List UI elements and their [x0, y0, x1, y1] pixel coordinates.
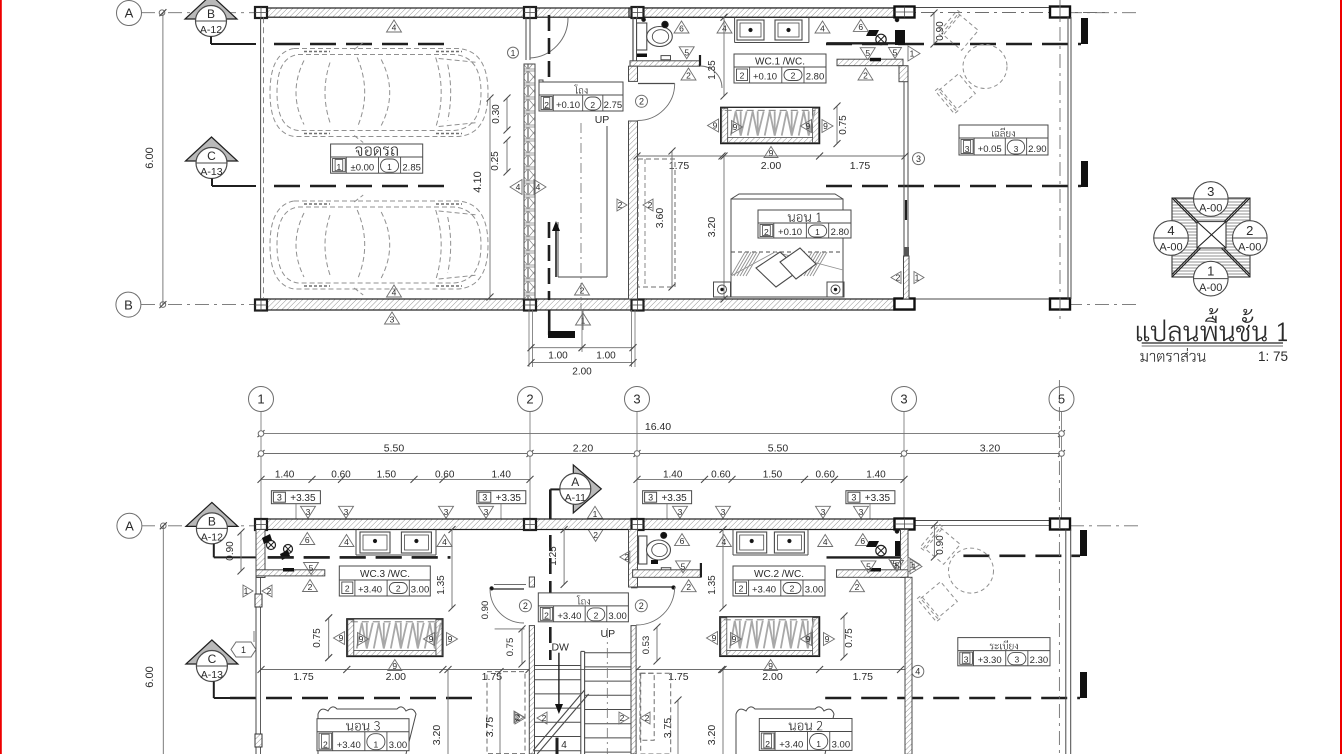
svg-text:6: 6 [858, 22, 863, 32]
svg-text:9: 9 [429, 634, 434, 644]
stair left wall (bottom) [529, 626, 534, 754]
svg-text:3: 3 [964, 655, 969, 665]
columns bottom (top plan) [255, 300, 267, 311]
svg-text:4: 4 [561, 740, 567, 751]
svg-text:2.75: 2.75 [604, 100, 623, 111]
svg-text:0.75: 0.75 [312, 628, 323, 648]
door arc WC1 [700, 66, 722, 88]
svg-text:2.80: 2.80 [806, 72, 825, 83]
closet dashed bedroom1 [638, 159, 675, 287]
svg-text:C: C [208, 652, 217, 666]
bed bedroom 1 [731, 194, 843, 297]
svg-text:6: 6 [679, 24, 684, 34]
section marker C/A-13 (top) [186, 137, 238, 161]
svg-text:2: 2 [648, 200, 653, 210]
svg-text:1.35: 1.35 [707, 575, 718, 595]
svg-text:3: 3 [633, 392, 640, 407]
svg-text:5: 5 [866, 561, 871, 571]
svg-text:A-13: A-13 [201, 669, 223, 681]
svg-text:3.60: 3.60 [654, 208, 666, 229]
stair outline (top plan) [606, 126, 608, 277]
svg-text:4.10: 4.10 [472, 171, 484, 192]
svg-text:3: 3 [1207, 184, 1214, 199]
tri 4/4 WC2 sinks [716, 535, 731, 547]
svg-text:A: A [125, 518, 134, 533]
grid bubble A (bottom plan) [117, 513, 142, 538]
svg-text:+3.40: +3.40 [358, 585, 382, 596]
grid bubble 5 [1049, 387, 1074, 412]
blanket hatch [731, 252, 843, 276]
svg-text:5.50: 5.50 [768, 443, 789, 455]
dim 1.35 WC2 [722, 530, 724, 609]
svg-text:2.00: 2.00 [572, 367, 592, 378]
wall right WC2 vertical [901, 530, 909, 578]
WC1 left wall [632, 17, 634, 61]
svg-text:9: 9 [769, 148, 774, 158]
door arc hall left (bottom) [490, 588, 524, 590]
svg-text:4: 4 [392, 23, 397, 33]
svg-text:3.75: 3.75 [662, 718, 674, 739]
svg-text:9: 9 [713, 121, 718, 131]
dim 3.20 bn3 [447, 670, 449, 754]
svg-text:1: 1 [257, 392, 264, 407]
key plan diagonals [1172, 198, 1250, 277]
dim 0.75 left rail [328, 618, 330, 658]
WC toilet (bottom middle) [639, 536, 647, 564]
grid line A (bottom plan) [141, 525, 256, 527]
dim 1.25 hall [563, 530, 565, 585]
section line right segment (bottom) [963, 554, 1080, 557]
svg-text:1: 1 [912, 562, 917, 572]
svg-text:3: 3 [482, 493, 487, 503]
bedroom1 label box [758, 210, 851, 238]
grid circle 3 right [913, 153, 925, 165]
svg-text:3.00: 3.00 [389, 740, 408, 751]
tri 5/5/1/2 right band (bottom) [861, 561, 876, 573]
floor drain (bottom middle WC) [661, 568, 671, 573]
svg-text:3: 3 [444, 507, 449, 517]
columns (top plan) [255, 7, 267, 18]
shower glass line [827, 42, 901, 44]
railing bar left (bottom) [347, 619, 443, 657]
section line 2 heavy dashes (bottom plan) [230, 697, 481, 700]
svg-text:+3.40: +3.40 [779, 740, 803, 751]
svg-text:1: 1 [815, 227, 820, 237]
svg-text:DW: DW [551, 642, 569, 654]
grid3 wall (bottom plan) [629, 530, 638, 588]
svg-text:0.53: 0.53 [641, 636, 652, 655]
svg-text:6: 6 [680, 536, 685, 546]
thong label box (bottom) [538, 593, 628, 622]
svg-text:4: 4 [344, 537, 349, 547]
svg-text:1: 1 [387, 162, 392, 172]
svg-text:UP: UP [601, 628, 616, 640]
svg-text:1.40: 1.40 [866, 470, 886, 481]
tri 2 marks stair walls [515, 712, 525, 724]
grid line A (top plan) [141, 12, 256, 14]
svg-text:A-00: A-00 [1238, 242, 1261, 254]
heavy L mark below bottom wall [548, 310, 551, 335]
svg-text:9: 9 [768, 661, 773, 671]
grid bubble 3 [892, 387, 917, 412]
svg-text:16.40: 16.40 [645, 421, 671, 433]
svg-text:2: 2 [765, 739, 770, 749]
svg-text:2.80: 2.80 [831, 227, 850, 238]
dim 0.75 hall left [495, 628, 525, 630]
svg-text:2: 2 [516, 713, 521, 723]
section marker C/A-13 (bottom) [186, 640, 238, 664]
svg-text:3: 3 [648, 493, 653, 503]
svg-text:2.30: 2.30 [1030, 655, 1049, 666]
vertical dim 6.00 (top plan) [162, 13, 164, 305]
svg-text:3: 3 [1014, 144, 1019, 154]
chair 1 (top porch) [938, 10, 979, 52]
left wall (bottom plan) [256, 530, 265, 578]
svg-text:2: 2 [594, 611, 599, 621]
WC1 toilet [637, 23, 647, 50]
svg-text:1.50: 1.50 [377, 470, 397, 481]
garage left edge [260, 17, 262, 299]
svg-text:4: 4 [823, 537, 828, 547]
title Thai [1137, 308, 1287, 341]
svg-text:2.85: 2.85 [402, 162, 421, 173]
svg-text:1: 1 [244, 586, 249, 596]
svg-text:1.75: 1.75 [850, 160, 871, 172]
svg-text:+0.10: +0.10 [753, 72, 777, 83]
sinks counter (bottom WC2) [732, 530, 734, 556]
matra text [1140, 348, 1205, 362]
svg-text:+3.35: +3.35 [290, 493, 316, 504]
section line 1 heavy vertical dash (top) [548, 15, 551, 81]
svg-text:UP: UP [595, 114, 610, 126]
svg-text:2: 2 [686, 582, 691, 592]
svg-text:2: 2 [618, 200, 623, 210]
svg-text:0.60: 0.60 [435, 470, 455, 481]
svg-text:1.35: 1.35 [707, 60, 718, 80]
svg-text:3.75: 3.75 [484, 717, 496, 738]
bottom wall (top plan) [256, 299, 894, 310]
svg-text:4: 4 [820, 24, 825, 34]
car 2 [270, 195, 488, 295]
svg-text:+3.40: +3.40 [337, 740, 361, 751]
stair right wall (bottom) [631, 626, 636, 754]
svg-text:0.90: 0.90 [480, 601, 491, 620]
svg-text:9: 9 [732, 634, 737, 644]
svg-text:0.25: 0.25 [490, 151, 501, 171]
svg-text:2: 2 [542, 713, 547, 723]
svg-text:0.90: 0.90 [935, 535, 946, 555]
sink 2 [775, 20, 802, 40]
left rail strip to bottom [255, 577, 257, 754]
svg-text:A-12: A-12 [201, 531, 223, 543]
level box 3.35 [477, 491, 526, 504]
svg-text:3.20: 3.20 [706, 217, 718, 238]
svg-text:2: 2 [645, 713, 650, 723]
dim 0.90 left (bottom) [240, 532, 242, 571]
garage label box [331, 144, 423, 173]
chaliang label box [959, 125, 1048, 155]
svg-text:2: 2 [593, 530, 598, 540]
svg-text:0.75: 0.75 [505, 638, 516, 657]
svg-text:2.00: 2.00 [762, 671, 783, 683]
svg-text:0.60: 0.60 [331, 470, 351, 481]
svg-text:A: A [571, 475, 579, 489]
circle 2 left hall [519, 600, 531, 612]
section line heavy dashes left (bottom plan) [268, 556, 451, 559]
svg-text:3: 3 [851, 493, 856, 503]
svg-text:9: 9 [359, 634, 364, 644]
porch left wall (bottom plan) [905, 577, 912, 754]
svg-text:1.00: 1.00 [548, 351, 568, 362]
section 4 heavy at stair bottom [556, 738, 559, 754]
svg-text:1.75: 1.75 [293, 671, 314, 683]
svg-text:2: 2 [639, 97, 644, 107]
svg-text:1: 1 [374, 740, 379, 750]
door arc bedroom1 [638, 83, 675, 85]
stair break diagonal [533, 690, 584, 751]
porch boundary right (top plan) [1067, 17, 1069, 299]
chair 2 (top porch) [935, 72, 976, 114]
section line C-C heavy dashes (top plan) [274, 185, 452, 188]
svg-text:9: 9 [823, 121, 828, 131]
svg-text:1: 1 [581, 316, 586, 326]
stair treads left flight (DW) [535, 665, 581, 667]
WC.2 label box [733, 566, 825, 596]
dim 0.75 right rail [843, 616, 845, 657]
circle 1 marker [508, 47, 519, 58]
svg-text:0.90: 0.90 [935, 21, 946, 41]
svg-text:2: 2 [523, 601, 528, 611]
porch top edge (bottom plan) [914, 520, 1051, 522]
svg-text:4: 4 [392, 288, 397, 298]
svg-text:2: 2 [396, 584, 401, 594]
svg-text:0.75: 0.75 [838, 115, 849, 135]
svg-text:1.00: 1.00 [596, 351, 616, 362]
level box 3.35 [846, 491, 895, 504]
tri 1|2 left wall [243, 585, 253, 597]
svg-text:0.75: 0.75 [844, 628, 855, 648]
closet dashed bn2 [641, 673, 671, 754]
svg-text:0.60: 0.60 [711, 470, 731, 481]
sink b1 [360, 532, 390, 553]
section marker B/A-12 (bottom) [186, 502, 238, 526]
sink b2 [401, 532, 431, 553]
stair centerline [580, 123, 582, 310]
bed 3 headboard [318, 707, 416, 754]
laundry taps left [267, 541, 276, 550]
wall band left WC (bottom) [256, 570, 325, 576]
svg-text:6: 6 [860, 536, 865, 546]
section marker B/A-12 (top) [185, 0, 237, 19]
svg-text:2: 2 [855, 582, 860, 592]
svg-text:2.00: 2.00 [761, 160, 782, 172]
svg-text:3.20: 3.20 [980, 443, 1001, 455]
svg-text:9: 9 [806, 634, 811, 644]
dim row 1.75/2.00/1.75 (bottom left) + right [261, 669, 905, 671]
bottom porch edge (top plan) [914, 298, 1071, 300]
red page border left [0, 0, 2, 754]
svg-text:2: 2 [639, 601, 644, 611]
svg-text:2: 2 [526, 392, 533, 407]
svg-text:1: 1 [511, 48, 516, 58]
columns top row (bottom plan) [255, 519, 267, 530]
closet dashed bn3 [487, 672, 525, 754]
key plan center square [1197, 222, 1226, 249]
circle 4 right [912, 665, 924, 677]
svg-text:9: 9 [339, 633, 344, 643]
svg-text:3.00: 3.00 [411, 585, 430, 596]
svg-text:2: 2 [590, 100, 595, 110]
svg-text:0.30: 0.30 [491, 104, 502, 124]
tri 4 top garage [387, 20, 402, 32]
svg-text:1: 1 [241, 645, 246, 655]
svg-text:2: 2 [544, 611, 549, 621]
svg-text:A-00: A-00 [1159, 242, 1182, 254]
svg-text:B: B [207, 7, 215, 21]
svg-text:1.75: 1.75 [668, 671, 689, 683]
grid circle 2 small [636, 95, 648, 107]
rabiang label box [958, 638, 1050, 666]
dim 0.90 (top porch) [933, 13, 935, 44]
svg-text:3.00: 3.00 [832, 740, 851, 751]
svg-text:1.35: 1.35 [436, 575, 447, 595]
svg-text:9: 9 [825, 634, 830, 644]
leader lines level boxes [295, 504, 297, 530]
svg-text:WC.2 /WC.: WC.2 /WC. [754, 569, 804, 580]
WC.3 label box [339, 566, 430, 596]
svg-text:2: 2 [624, 552, 629, 562]
tri 9 marks railing1 [708, 119, 719, 132]
svg-text:B: B [124, 297, 133, 312]
key circle 1 [1194, 261, 1229, 296]
svg-text:2: 2 [790, 584, 795, 594]
svg-text:3: 3 [306, 507, 311, 517]
svg-text:1: 1 [816, 739, 821, 749]
vertical dim 6.00 (bottom plan) [162, 526, 164, 754]
railing bar bedroom1 window [721, 107, 820, 143]
grid bubble B (top plan) [116, 292, 141, 317]
svg-text:5: 5 [681, 561, 686, 571]
svg-text:2: 2 [580, 286, 585, 296]
svg-text:3: 3 [916, 154, 921, 164]
top wall (top plan) [256, 8, 894, 17]
DW arrow [558, 653, 560, 706]
svg-text:3: 3 [1014, 655, 1019, 665]
dim 0.75 railing1 [836, 106, 838, 144]
svg-text:C: C [207, 149, 216, 163]
svg-text:+3.35: +3.35 [496, 493, 522, 504]
dim 1.35 WC3 [451, 530, 453, 609]
svg-text:3.20: 3.20 [431, 725, 443, 746]
grid bubble A (top plan) [117, 1, 142, 26]
circle 2 right hall [635, 600, 647, 612]
grid bubble 2 [518, 387, 543, 412]
tri 2 above bottom wall / tri 1 below [575, 283, 590, 295]
section end bar top right [1081, 18, 1088, 44]
dim 3.20 bedroom1 [723, 156, 725, 299]
wall band below WC (bottom middle) [633, 570, 701, 578]
svg-text:9: 9 [733, 122, 738, 132]
grid bubble 3 [625, 387, 650, 412]
section end bar right 2 [1081, 161, 1088, 187]
svg-text:3: 3 [390, 315, 395, 325]
svg-text:5: 5 [309, 563, 314, 573]
svg-text:2: 2 [267, 586, 272, 596]
dashed closet right of stairs [640, 673, 654, 740]
tri set WC bottom middle [675, 534, 690, 546]
svg-text:2: 2 [544, 100, 549, 110]
dim 0.90 (bottom porch) [933, 525, 935, 557]
shower fixtures right (bottom) [876, 545, 886, 555]
sinks counter left (bottom) [355, 530, 357, 556]
svg-text:3: 3 [900, 392, 907, 407]
svg-text:2: 2 [620, 713, 625, 723]
key plan hatched square [1172, 198, 1250, 277]
svg-text:1: 1 [910, 49, 915, 59]
top wall (bottom plan) [256, 519, 894, 530]
svg-text:2: 2 [345, 584, 350, 594]
sink c1 [737, 532, 767, 553]
svg-text:2: 2 [896, 273, 901, 283]
svg-text:WC.3 /WC.: WC.3 /WC. [360, 569, 410, 580]
stair wall stub top right [632, 577, 638, 588]
pillows [756, 252, 800, 287]
porch right edge (bottom) [1065, 530, 1067, 754]
svg-text:3.20: 3.20 [706, 725, 718, 746]
svg-text:2: 2 [764, 227, 769, 237]
bed 2 headboard [736, 707, 834, 754]
svg-text:6.00: 6.00 [144, 666, 156, 687]
dim 3.20/3.75 bedroom2 [722, 670, 724, 754]
svg-text:+3.40: +3.40 [752, 585, 776, 596]
column porch top right [1050, 7, 1070, 18]
svg-text:+3.40: +3.40 [557, 611, 581, 622]
railing bar right (bottom) [720, 617, 820, 657]
svg-text:A-00: A-00 [1199, 282, 1222, 294]
svg-text:3.00: 3.00 [608, 611, 627, 622]
svg-text:9: 9 [806, 121, 811, 131]
heavy dash line laundry [268, 556, 451, 558]
section marker A/A-11 [573, 465, 601, 513]
dim row 1.75/2.00/1.75 (top plan) [637, 155, 905, 157]
tri 1 up / 2 down near A-11 [588, 506, 603, 518]
svg-text:3: 3 [721, 507, 726, 517]
entry door top of strip [525, 17, 527, 60]
svg-text:3: 3 [859, 507, 864, 517]
key circle 2 [1233, 221, 1268, 256]
key circle 3 [1194, 182, 1229, 217]
porch top edge thin (top plan) [914, 7, 1051, 9]
svg-text:1: 1 [1207, 264, 1214, 279]
svg-text:3: 3 [965, 144, 970, 154]
svg-text:0.90: 0.90 [225, 541, 236, 561]
tri 5 / 2 left band [304, 563, 319, 575]
grid line B (top plan) [141, 304, 256, 306]
svg-text:6.00: 6.00 [144, 147, 156, 168]
tri 6 / 5 / 2 at WC1 [674, 21, 689, 33]
tri 4 / 4 sinks [717, 21, 732, 33]
svg-text:2: 2 [308, 582, 313, 592]
svg-text:2: 2 [686, 71, 691, 81]
garage door X-strip wall [524, 64, 535, 299]
door jamb detail right of strip [539, 80, 543, 110]
svg-text:B: B [208, 514, 216, 528]
dim 4.10 garage [489, 98, 491, 297]
svg-text:6: 6 [305, 535, 310, 545]
nightstands [714, 282, 731, 297]
section line B-B heavy dashes (top plan) [274, 43, 452, 46]
svg-text:3: 3 [821, 507, 826, 517]
